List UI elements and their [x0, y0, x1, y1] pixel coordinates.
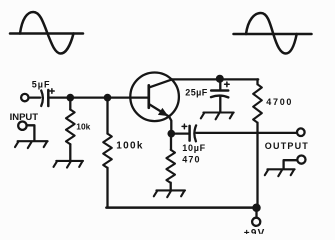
battery terminal +9V	[252, 218, 260, 226]
wire to battery terminal	[255, 208, 257, 218]
node base junction 1	[68, 95, 73, 100]
input waveform	[10, 12, 83, 54]
wire	[29, 96, 41, 98]
svg-text:10k: 10k	[76, 122, 90, 132]
node emitter junction	[169, 131, 174, 136]
svg-text:5µF: 5µF	[32, 79, 51, 89]
capacitor C1 5uF	[32, 79, 54, 106]
resistor R2 100k	[103, 98, 144, 207]
svg-text:25µF: 25µF	[185, 88, 207, 98]
ground (input jack)	[15, 141, 48, 148]
input lower terminal	[18, 122, 34, 141]
svg-text:4700: 4700	[266, 97, 293, 107]
node supply junction	[253, 205, 259, 211]
capacitor C2 25uF	[185, 79, 229, 112]
resistor R3 4700	[253, 79, 293, 207]
wire output (C3 to OUTPUT)	[196, 132, 297, 134]
output waveform	[234, 13, 312, 54]
svg-text:+9V: +9V	[244, 228, 266, 234]
wire +9V bus	[106, 206, 256, 209]
wire output (emitter to C3)	[174, 132, 189, 134]
ground (below R1)	[54, 161, 84, 168]
resistor R4 470	[166, 134, 200, 190]
capacitor C3 10uF	[182, 124, 206, 153]
resistor R1 10k	[66, 98, 91, 160]
transistor Q1	[130, 73, 179, 134]
wire base	[49, 96, 149, 98]
node base junction 2	[105, 95, 110, 100]
svg-text:10µF: 10µF	[182, 143, 206, 153]
wire collector top	[172, 78, 258, 80]
INPUT terminal	[21, 94, 28, 101]
OUTPUT terminal	[297, 128, 305, 136]
svg-text:100k: 100k	[116, 140, 143, 151]
ground (below C2)	[201, 113, 234, 120]
output lower terminal	[284, 156, 306, 169]
node collector decoupling junction	[217, 76, 223, 82]
svg-text:OUTPUT: OUTPUT	[265, 141, 309, 151]
ground (below R4)	[154, 190, 185, 197]
svg-text:470: 470	[182, 155, 200, 165]
ground (output jack)	[265, 169, 295, 176]
